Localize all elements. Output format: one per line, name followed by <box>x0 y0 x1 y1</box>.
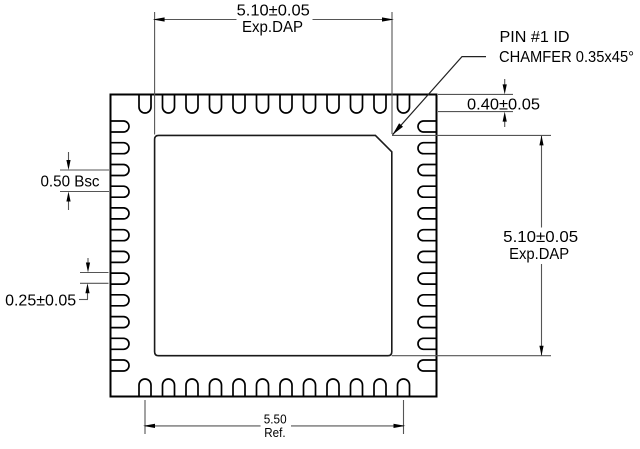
extension line at package top edge level <box>438 93 513 95</box>
extension line at pad tip level <box>438 111 513 113</box>
extension line left (DAP left edge) <box>154 12 156 135</box>
extension line right <box>403 400 405 434</box>
top pad row (12 pins) <box>139 95 410 114</box>
text backing <box>237 0 313 36</box>
leader arrowhead <box>393 123 404 135</box>
svg-text:0.50 Bsc: 0.50 Bsc <box>41 174 100 191</box>
svg-text:Ref.: Ref. <box>264 426 285 440</box>
lower arrow with leader to label <box>87 293 89 300</box>
leader line <box>393 57 487 135</box>
dimension: 0.50 Bsc pitch <box>41 152 110 210</box>
dimension: 0.25±0.05 pin width <box>5 258 108 309</box>
bottom pad row (12 pins) <box>139 379 410 397</box>
arrowhead up <box>539 135 543 145</box>
right pad column (12 pins) <box>418 121 437 371</box>
svg-text:PIN #1 ID: PIN #1 ID <box>500 29 570 46</box>
dimension: bottom 5.50 Ref. <box>143 400 405 442</box>
upper arrow <box>68 152 70 161</box>
dimension: top 5.10 Exp.DAP <box>153 0 394 135</box>
pin 1 chamfer callout <box>393 29 635 135</box>
dimension line <box>155 19 392 21</box>
svg-text:5.50: 5.50 <box>264 413 287 427</box>
lower line <box>80 282 109 284</box>
svg-text:0.25±0.05: 0.25±0.05 <box>5 292 76 309</box>
svg-text:Exp.DAP: Exp.DAP <box>242 19 303 36</box>
upper arrow <box>504 79 506 86</box>
arrowhead down <box>539 346 543 356</box>
svg-text:0.40±0.05: 0.40±0.05 <box>467 97 540 114</box>
package outline <box>111 95 437 397</box>
svg-text:5.10±0.05: 5.10±0.05 <box>503 229 578 246</box>
svg-text:Exp.DAP: Exp.DAP <box>509 246 569 263</box>
dimension: 0.40±0.05 pin length <box>438 79 540 127</box>
dimension: right 5.10 Exp.DAP <box>392 135 580 355</box>
arrowhead left <box>143 424 155 428</box>
arrowhead right <box>394 424 406 428</box>
arrowhead right <box>382 17 394 21</box>
exposed DAP with pin1 chamfer <box>155 135 392 355</box>
text backing <box>261 409 292 442</box>
text backing <box>502 228 580 265</box>
extension line right (DAP right edge) <box>391 12 393 134</box>
dimension line <box>145 425 404 427</box>
upper line <box>80 272 109 274</box>
lower arrow <box>68 201 70 210</box>
upper arrow <box>87 258 89 263</box>
extension line bottom (from DAP bottom) <box>392 355 551 357</box>
arrowhead left <box>153 17 165 21</box>
extension line left <box>144 400 146 434</box>
left pad column (12 pins) <box>111 121 130 371</box>
lower line <box>60 191 109 193</box>
svg-text:5.10±0.05: 5.10±0.05 <box>237 3 310 20</box>
dimension line <box>541 135 543 355</box>
lower arrow <box>504 120 506 127</box>
upper line <box>60 169 109 171</box>
svg-text:CHAMFER 0.35x45°: CHAMFER 0.35x45° <box>499 49 634 66</box>
extension line top (from chamfer corner) <box>392 134 551 136</box>
